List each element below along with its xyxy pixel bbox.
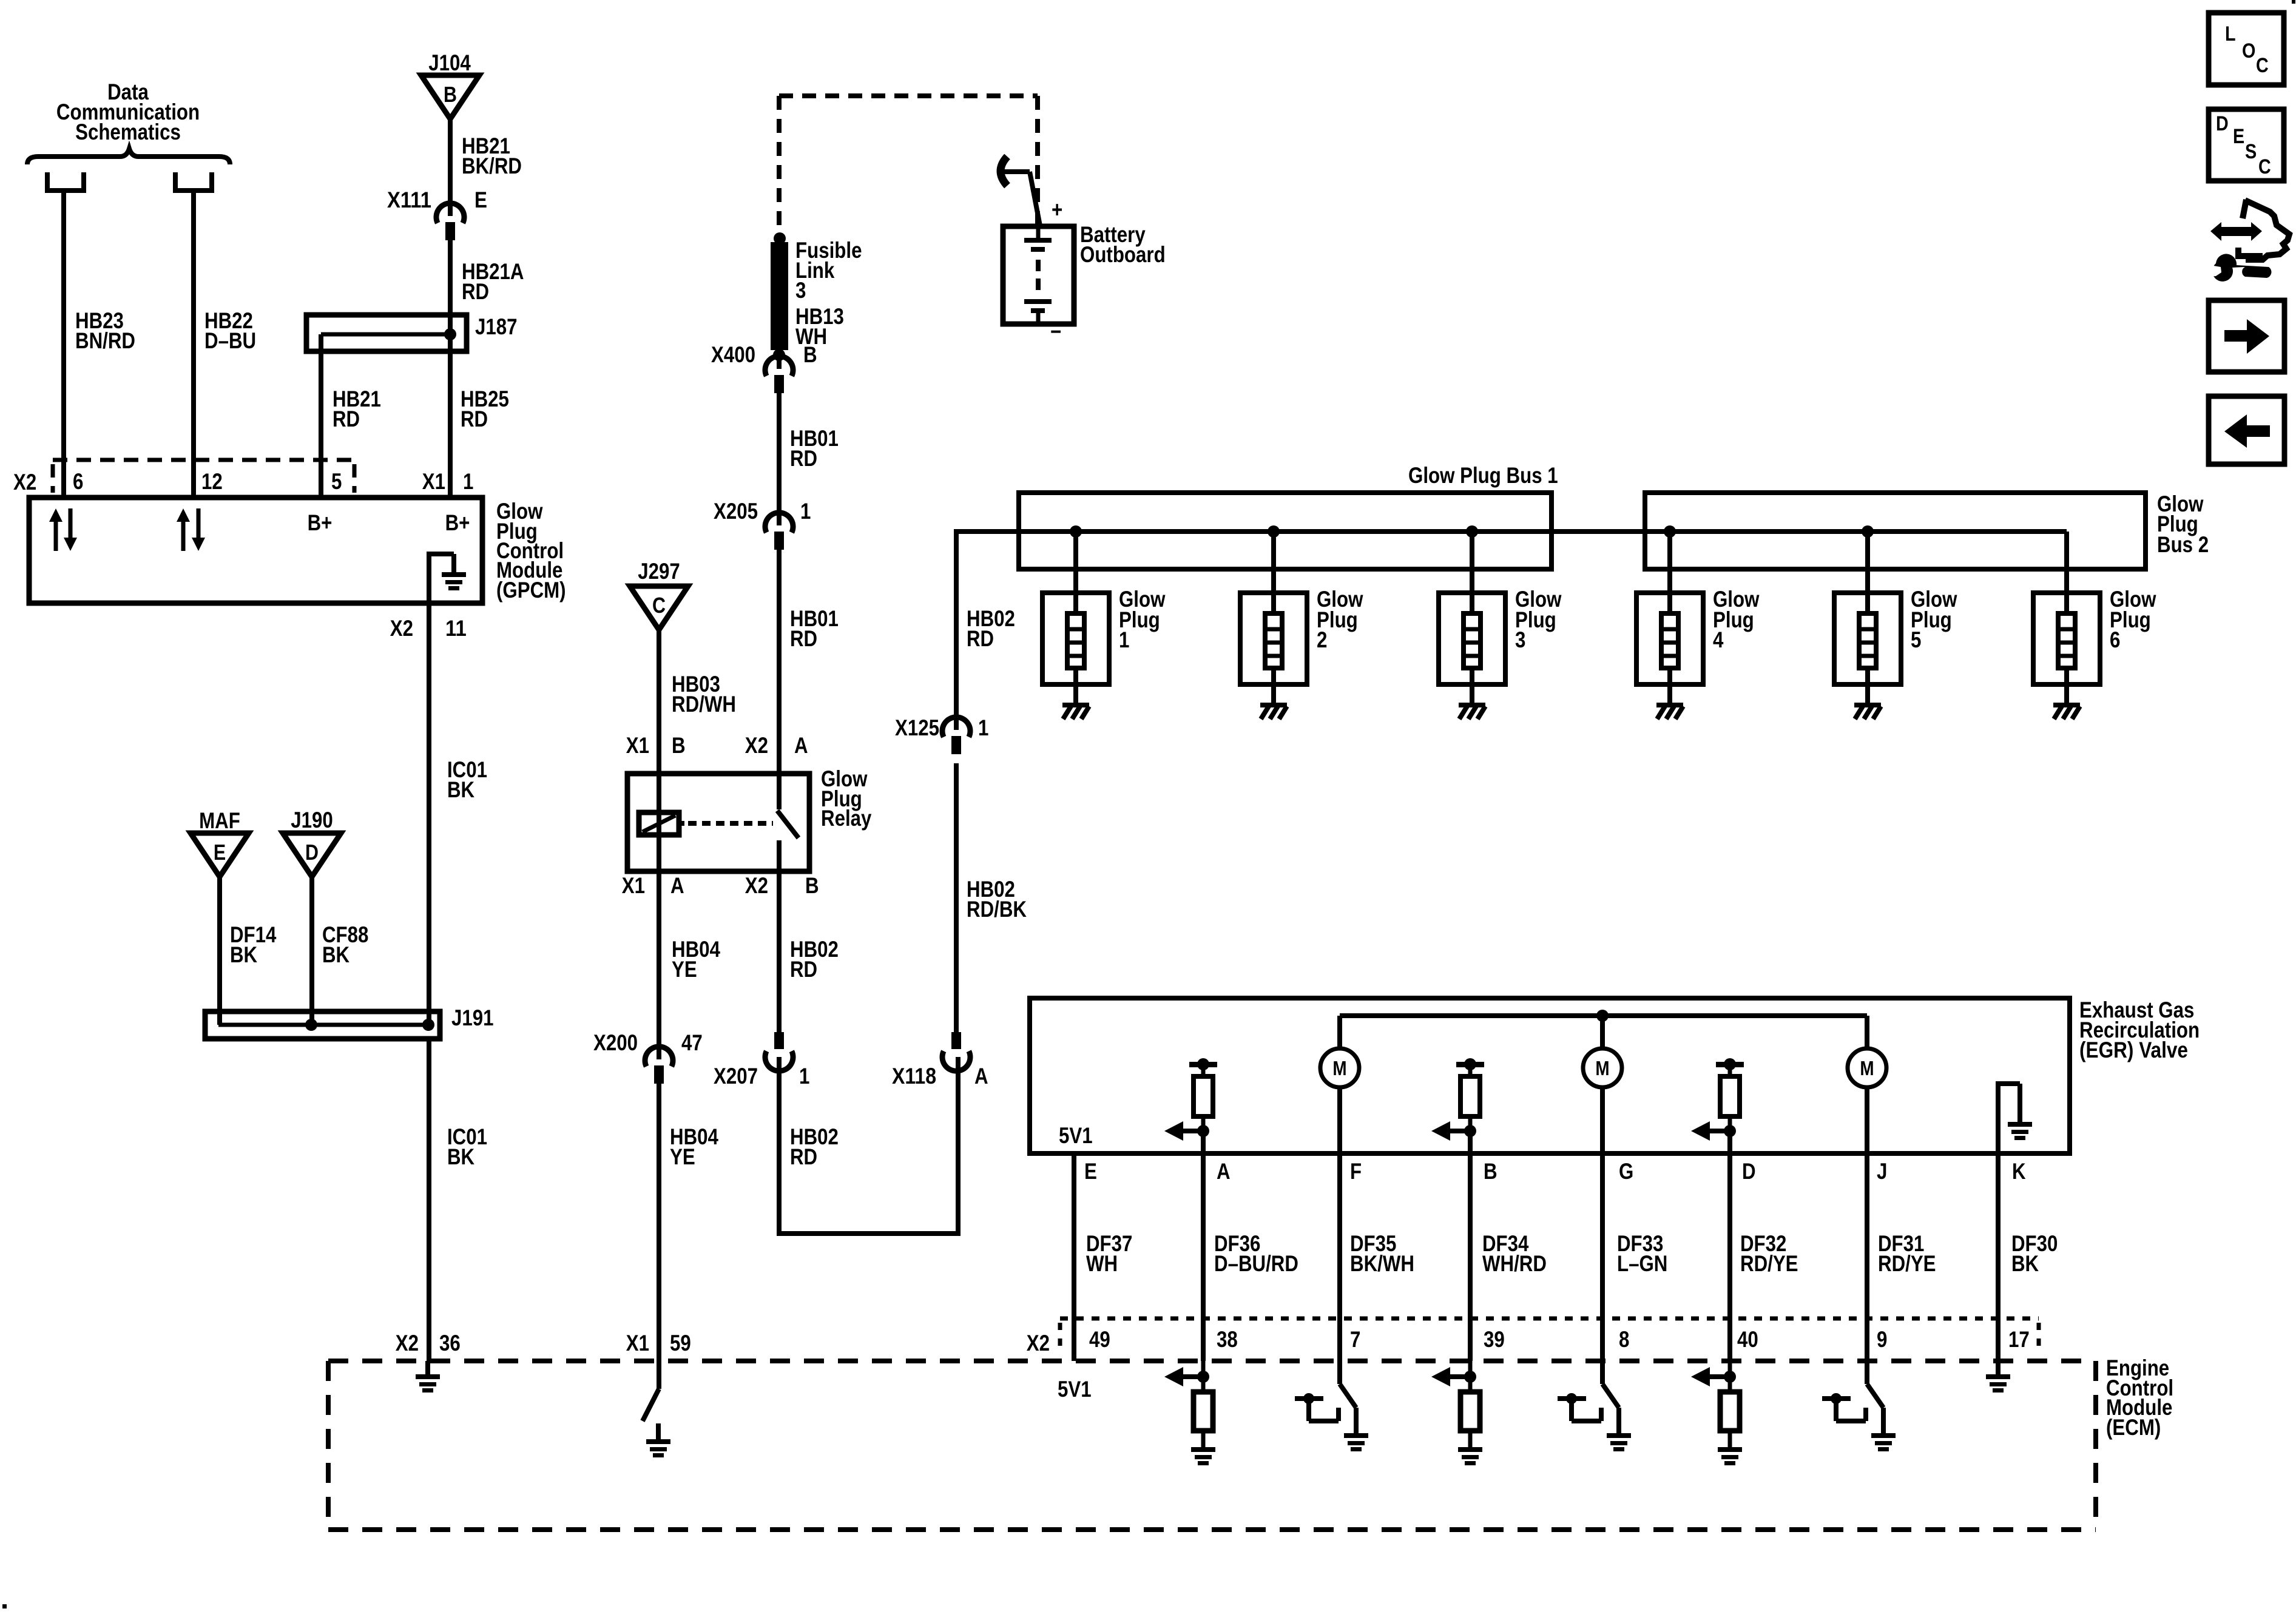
node label X1 pin 59 at ECM — [626, 1331, 691, 1355]
wire EGR 5V1 pin E — [1072, 1153, 1076, 1361]
node label B+ pin 5 — [308, 510, 333, 535]
node data arrows pair 2 — [177, 508, 205, 551]
ground ECM ground at x2423 — [1458, 1447, 1482, 1465]
svg-text:E: E — [1084, 1159, 1097, 1184]
svg-text:1: 1 — [799, 1064, 809, 1089]
svg-text:J297: J297 — [638, 559, 680, 584]
ground glow plug 4 chassis ground — [1656, 703, 1683, 719]
ground ECM pin 59 ground — [646, 1439, 670, 1457]
svg-text:B: B — [803, 342, 817, 367]
svg-text:38: 38 — [1217, 1327, 1238, 1352]
svg-text:2: 2 — [1317, 627, 1327, 652]
node GPCM pin 12 label — [201, 469, 223, 494]
svg-text:1: 1 — [1119, 627, 1129, 652]
wire relay coil branch — [657, 774, 661, 871]
node label X400 B — [711, 342, 817, 367]
resistor Glow Plug 5 heater — [1834, 532, 1901, 703]
ground glow plug 6 chassis ground — [2053, 703, 2080, 719]
wire IC01 BK from GPCM X2-11 to J191 — [427, 603, 431, 1025]
node label HB21A RD — [462, 259, 524, 304]
svg-text:M: M — [1860, 1057, 1874, 1079]
svg-text:RD/WH: RD/WH — [672, 692, 736, 717]
node label CF88 BK — [322, 922, 368, 967]
svg-text:D: D — [1742, 1159, 1756, 1184]
svg-text:40: 40 — [1737, 1327, 1758, 1352]
relay ECM glow plug enable switch blade — [643, 1389, 659, 1421]
ground ECM pin 36 ground — [416, 1361, 440, 1393]
svg-text:BK: BK — [322, 942, 349, 967]
node Data Communication Schematics heading — [56, 79, 200, 144]
svg-text:5: 5 — [1911, 627, 1921, 652]
wire IC01 BK from J191 to ECM — [427, 1039, 431, 1361]
svg-text:RD: RD — [790, 626, 817, 651]
wire ECM switch to ground — [656, 1423, 661, 1439]
node connector X207 — [765, 1032, 793, 1071]
node label Battery Outboard — [1080, 222, 1166, 267]
node page corner mark top right — [2292, 0, 2295, 4]
svg-text:X200: X200 — [593, 1030, 638, 1055]
wire EGR pin K to ECM — [1996, 1153, 2001, 1361]
svg-text:B: B — [444, 82, 457, 107]
relay Glow Plug Relay box — [627, 774, 809, 871]
svg-text:O: O — [2242, 39, 2255, 62]
svg-text:C: C — [2258, 155, 2271, 178]
node label Exhaust Gas Recirculation (EGR) Valve — [2079, 998, 2200, 1062]
svg-text:RD: RD — [790, 446, 817, 471]
transistor motor M3 — [1848, 1048, 1886, 1087]
svg-text:L: L — [2225, 22, 2236, 46]
node label DF36 D-BU/RD — [1214, 1231, 1298, 1276]
wire HB03 RD/WH — [657, 630, 661, 774]
svg-text:3: 3 — [795, 278, 806, 303]
resistor EGR position sensor A — [1164, 1058, 1217, 1141]
node label B+ pin 1 — [445, 510, 470, 535]
node label HB02 RD/BK — [967, 877, 1027, 922]
svg-text:X2: X2 — [745, 733, 768, 758]
svg-text:3: 3 — [1515, 627, 1525, 652]
node connector triangle J297 C — [630, 559, 688, 630]
svg-text:RD: RD — [461, 407, 488, 431]
node label Glow Plug Control Module (GPCM) — [496, 499, 566, 603]
node J187 splice box — [306, 315, 467, 351]
ground glow plug 2 chassis ground — [1260, 703, 1287, 719]
node connector fork HB23 — [45, 172, 86, 191]
node junction dot glow plug 2 — [1268, 525, 1280, 538]
svg-text:D: D — [2216, 112, 2229, 135]
svg-text:D–BU/RD: D–BU/RD — [1214, 1251, 1298, 1276]
wire J187 internal bus — [321, 315, 450, 351]
node label Glow Plug Bus 1 — [1408, 463, 1558, 488]
node label DF14 BK — [230, 922, 277, 967]
ground glow plug 5 chassis ground — [1854, 703, 1881, 719]
node GPCM X1 pin 1 labels — [422, 469, 474, 494]
svg-text:RD: RD — [790, 1144, 817, 1169]
wire HB25 RD from J187 to GPCM X1-1 — [448, 351, 453, 500]
node label DF33 L-GN — [1617, 1231, 1667, 1276]
node label Glow Plug 2 — [1317, 587, 1363, 652]
node page period mark bottom left — [2, 1604, 7, 1609]
node label battery plus — [1052, 197, 1062, 222]
svg-text:Bus 2: Bus 2 — [2157, 532, 2209, 557]
node label Fusible Link 3 HB13 WH — [795, 238, 862, 349]
node label HB21 BK/RD — [462, 133, 522, 178]
svg-text:BK/RD: BK/RD — [462, 154, 522, 178]
ground ECM driver ground at x3077 — [1871, 1433, 1896, 1451]
ground GPCM internal ground — [427, 554, 466, 603]
svg-text:B: B — [1484, 1159, 1497, 1184]
svg-text:D–BU: D–BU — [204, 328, 256, 353]
node label X205 pin 1 — [714, 499, 811, 524]
node icon LOC box — [2209, 13, 2284, 85]
svg-text:A: A — [794, 733, 808, 758]
svg-text:WH/RD: WH/RD — [1482, 1251, 1547, 1276]
svg-text:1: 1 — [978, 715, 988, 740]
node label DF35 BK/WH — [1350, 1231, 1414, 1276]
node junction dot IC01 at J191 — [422, 1019, 434, 1031]
svg-text:B: B — [672, 733, 686, 758]
svg-text:G: G — [1619, 1159, 1633, 1184]
node junction dot fusible link bottom — [773, 349, 785, 361]
node relay pin labels top — [626, 733, 808, 758]
wire CF88 BK from J190 to J191 — [309, 877, 314, 1025]
svg-text:49: 49 — [1089, 1327, 1110, 1352]
svg-text:RD: RD — [333, 407, 360, 431]
node connector triangle J104 B — [421, 50, 479, 119]
svg-text:47: 47 — [681, 1030, 703, 1055]
node label IC01 BK lower — [447, 1124, 487, 1169]
node label DF37 WH — [1086, 1231, 1132, 1276]
svg-text:X2: X2 — [745, 873, 768, 898]
node label Engine Control Module (ECM) — [2106, 1355, 2173, 1440]
svg-text:RD: RD — [967, 626, 994, 651]
wire motor M2 to pin G — [1600, 1087, 1605, 1361]
svg-text:E: E — [2233, 125, 2244, 148]
op-amp EGR Exhaust Gas Recirculation Valve box — [1030, 998, 2070, 1153]
svg-text:A: A — [670, 873, 684, 898]
svg-text:36: 36 — [439, 1331, 461, 1355]
node label DF34 WH/RD — [1482, 1231, 1547, 1276]
wire ECM pin 17 to ground — [1996, 1361, 2001, 1374]
node label HB03 RD/WH — [672, 672, 736, 717]
svg-text:9: 9 — [1877, 1327, 1887, 1352]
svg-text:(ECM): (ECM) — [2106, 1415, 2161, 1440]
svg-text:RD/YE: RD/YE — [1740, 1251, 1798, 1276]
node junction dot glow plug 1 — [1070, 525, 1082, 538]
node junction dot J190 at J191 — [305, 1019, 317, 1031]
svg-text:RD: RD — [462, 279, 489, 304]
svg-text:39: 39 — [1484, 1327, 1505, 1352]
relay switch blade — [777, 811, 799, 838]
svg-text:BK: BK — [2011, 1251, 2039, 1276]
node label HB25 RD — [461, 387, 509, 431]
svg-text:7: 7 — [1350, 1327, 1360, 1352]
resistor EGR position sensor B — [1431, 1058, 1484, 1141]
node label HB01 RD upper — [790, 426, 839, 471]
svg-text:D: D — [305, 840, 319, 865]
node label X125 pin 1 — [895, 715, 988, 740]
node label HB21 RD — [333, 387, 381, 431]
svg-text:WH: WH — [1086, 1251, 1118, 1276]
node GPCM pin 6 label — [73, 469, 83, 494]
svg-text:Relay: Relay — [821, 806, 872, 831]
fuse Fusible Link 3 HB13 WH — [771, 242, 788, 350]
relay ECM driver switch at x2208 — [1340, 1361, 1356, 1435]
node icon vehicle wrench — [2209, 200, 2289, 282]
node label Glow Plug 1 — [1119, 587, 1166, 652]
svg-text:X205: X205 — [714, 499, 758, 524]
node ECM driver clamp at x2208 — [1295, 1393, 1339, 1421]
battery Battery Outboard box — [1003, 226, 1074, 324]
wire relay switch output — [777, 840, 782, 871]
node label X118 pin A — [892, 1064, 988, 1089]
wire EGR motor supply bus — [1340, 1016, 1867, 1048]
svg-text:X2: X2 — [390, 616, 413, 641]
svg-text:J191: J191 — [451, 1005, 494, 1030]
svg-text:S: S — [2245, 140, 2257, 163]
wire DF14 BK from MAF to J191 — [217, 877, 222, 1025]
node label Glow Plug 6 — [2110, 587, 2156, 652]
node label Glow Plug 5 — [1911, 587, 1957, 652]
svg-text:Outboard: Outboard — [1080, 242, 1166, 267]
wire HB21 RD from J187 to GPCM pin 5 — [319, 334, 323, 500]
node connector X125 — [942, 717, 970, 754]
ground EGR internal ground — [1996, 1084, 2032, 1153]
node label J191 — [451, 1005, 494, 1030]
node icon previous page arrow box — [2209, 396, 2284, 464]
wire relay dashed actuator link — [679, 821, 773, 826]
node connector X205 — [765, 513, 793, 550]
node label IC01 BK upper — [447, 757, 487, 802]
wire motor M3 to pin J — [1865, 1087, 1869, 1361]
svg-text:B: B — [805, 873, 819, 898]
node ECM driver clamp at x2641 — [1558, 1393, 1601, 1421]
wire HB01 RD lower — [777, 550, 782, 809]
svg-text:MAF: MAF — [199, 808, 240, 833]
op-amp GPCM Glow Plug Control Module box — [29, 498, 482, 603]
wire relay switch input — [777, 550, 782, 809]
wire HB21 BK/RD — [448, 118, 453, 216]
node label 5V1 inside EGR — [1059, 1123, 1093, 1148]
node label HB04 YE lower — [670, 1124, 718, 1169]
node EGR pin letters — [1084, 1159, 2026, 1184]
resistor Glow Plug 3 heater — [1439, 532, 1505, 703]
node connector fork HB22 — [173, 172, 214, 191]
svg-text:5V1: 5V1 — [1059, 1123, 1093, 1148]
transistor motor M1 — [1320, 1048, 1359, 1087]
svg-text:A: A — [1217, 1159, 1231, 1184]
node ECM driver clamp at x3077 — [1822, 1393, 1866, 1421]
svg-text:Glow Plug Bus 1: Glow Plug Bus 1 — [1408, 463, 1558, 488]
node junction dot HB21A at J187 — [444, 328, 456, 340]
svg-text:+: + — [1052, 197, 1062, 222]
wire HB04 YE upper — [657, 871, 661, 1059]
node label HB02 RD upper — [790, 937, 839, 982]
resistor Glow Plug 1 heater — [1042, 532, 1109, 703]
node Glow Plug Bus 1 box — [1019, 493, 1551, 569]
svg-text:X111: X111 — [387, 187, 431, 212]
svg-text:8: 8 — [1619, 1327, 1629, 1352]
svg-text:RD/BK: RD/BK — [967, 897, 1027, 922]
svg-text:J187: J187 — [475, 314, 518, 339]
node junction dot glow plug 5 — [1862, 525, 1874, 538]
node label X2 pin 11 below GPCM — [390, 616, 467, 641]
svg-text:RD: RD — [790, 957, 817, 982]
svg-text:1: 1 — [463, 469, 473, 494]
svg-text:E: E — [214, 840, 226, 865]
node label 5V1 inside ECM — [1058, 1377, 1092, 1402]
node icon DESC box — [2209, 109, 2284, 181]
svg-text:X2: X2 — [396, 1331, 419, 1355]
svg-text:X2: X2 — [1027, 1331, 1050, 1355]
svg-text:X118: X118 — [892, 1064, 936, 1089]
node label HB23 BN/RD — [75, 308, 135, 353]
node label Glow Plug Relay — [821, 766, 872, 831]
resistor Glow Plug 4 heater — [1636, 532, 1703, 703]
svg-text:X1: X1 — [422, 469, 445, 494]
node connector X400 — [765, 356, 793, 393]
svg-text:BK: BK — [447, 777, 474, 802]
svg-text:1: 1 — [800, 499, 811, 524]
node label HB22 D-BU — [204, 308, 256, 353]
transistor motor M2 — [1583, 1048, 1622, 1087]
svg-text:11: 11 — [445, 616, 467, 641]
ground ECM pin 17 ground — [1986, 1374, 2010, 1393]
svg-text:Schematics: Schematics — [75, 120, 181, 144]
resistor ECM pull-up at x1983 — [1164, 1361, 1213, 1447]
svg-text:BK/WH: BK/WH — [1350, 1251, 1414, 1276]
node label X2 pin 36 at ECM — [396, 1331, 461, 1355]
node label HB02 RD at bus — [967, 606, 1015, 651]
ground ECM driver ground at x2208 — [1344, 1433, 1368, 1451]
node icon next page arrow box — [2209, 300, 2284, 372]
resistor ECM pull-up at x2851 — [1691, 1361, 1740, 1447]
resistor Glow Plug 2 heater — [1240, 532, 1307, 703]
node connector X200 — [645, 1047, 673, 1084]
svg-text:M: M — [1595, 1057, 1609, 1079]
wire dashed battery positive feed — [779, 96, 1038, 234]
wire HB21A RD — [448, 240, 453, 317]
svg-text:J: J — [1877, 1159, 1887, 1184]
node label Glow Plug Bus 2 — [2157, 491, 2209, 557]
resistor ECM pull-up at x2423 — [1431, 1361, 1480, 1447]
node J191 splice box — [205, 1011, 440, 1039]
svg-text:5: 5 — [331, 469, 342, 494]
node Glow Plug Bus 2 box — [1645, 493, 2146, 569]
node junction dot glow plug 4 — [1664, 525, 1676, 538]
ground ECM ground at x2851 — [1718, 1447, 1742, 1465]
node junction dot fusible link top — [774, 232, 786, 245]
svg-text:X400: X400 — [711, 342, 755, 367]
node label DF30 BK — [2011, 1231, 2058, 1276]
node ECM pin numbers — [1089, 1327, 2030, 1352]
node label HB04 YE upper — [672, 937, 720, 982]
wire EGR sensor B to ECM — [1468, 1131, 1473, 1361]
node label Glow Plug 4 — [1713, 587, 1760, 652]
node label DF32 RD/YE — [1740, 1231, 1798, 1276]
node connector X118 — [942, 1032, 970, 1071]
svg-text:X2: X2 — [13, 470, 36, 495]
svg-text:X125: X125 — [895, 715, 939, 740]
wire glow plug bus — [1019, 529, 2067, 534]
svg-text:B+: B+ — [308, 510, 333, 535]
node label J187 — [475, 314, 518, 339]
node connector triangle J190 D — [283, 808, 341, 877]
resistor Glow Plug 6 heater — [2033, 532, 2100, 703]
node connector X111 — [436, 203, 464, 240]
svg-text:X1: X1 — [626, 733, 649, 758]
svg-text:X1: X1 — [626, 1331, 649, 1355]
node junction dot glow plug 3 — [1466, 525, 1478, 538]
svg-text:5V1: 5V1 — [1058, 1377, 1092, 1402]
relay ECM driver switch at x3077 — [1867, 1361, 1883, 1435]
op-amp ECM Engine Control Module dashed box — [328, 1361, 2096, 1530]
node label HB01 RD lower — [790, 606, 839, 651]
ground ECM ground at x1983 — [1191, 1447, 1215, 1465]
wire curly brace under heading — [27, 149, 230, 164]
svg-text:17: 17 — [2008, 1327, 2030, 1352]
node battery clamp — [1001, 157, 1040, 226]
svg-text:J104: J104 — [428, 50, 471, 75]
wire HB02 RD to bus — [956, 529, 1019, 730]
svg-text:X1: X1 — [622, 873, 645, 898]
wire HB01 RD upper — [777, 393, 782, 525]
resistor EGR position sensor D — [1691, 1058, 1744, 1141]
svg-text:6: 6 — [2110, 627, 2120, 652]
node ECM X2 connector dotted bracket — [1027, 1318, 2039, 1355]
wire HB23 BN/RD vertical — [61, 191, 66, 500]
svg-text:4: 4 — [1713, 627, 1724, 652]
svg-text:B+: B+ — [445, 510, 470, 535]
svg-text:12: 12 — [201, 469, 223, 494]
wire EGR sensor D to ECM — [1727, 1131, 1732, 1361]
relay coil — [639, 812, 679, 835]
svg-text:(GPCM): (GPCM) — [496, 578, 566, 603]
svg-text:BN/RD: BN/RD — [75, 328, 135, 353]
wire J191 internal bus — [218, 1023, 428, 1027]
battery internal cells — [1024, 226, 1052, 324]
node connector triangle MAF E — [191, 808, 249, 877]
svg-text:BK: BK — [230, 942, 257, 967]
svg-text:YE: YE — [670, 1144, 695, 1169]
relay ECM driver switch at x2641 — [1602, 1361, 1619, 1435]
svg-text:(EGR) Valve: (EGR) Valve — [2079, 1038, 2188, 1062]
wire HB02 RD/BK — [954, 763, 959, 1033]
svg-text:−: − — [1050, 319, 1061, 344]
svg-text:L–GN: L–GN — [1617, 1251, 1667, 1276]
node label HB02 RD lower — [790, 1124, 839, 1169]
wire EGR motor 2 stub — [1600, 1016, 1605, 1048]
wire HB22 D-BU vertical — [191, 191, 196, 500]
svg-text:6: 6 — [73, 469, 83, 494]
svg-text:A: A — [974, 1064, 988, 1089]
node label Glow Plug 3 — [1515, 587, 1562, 652]
node junction dot EGR motor bus — [1596, 1010, 1609, 1022]
svg-text:X207: X207 — [714, 1064, 758, 1089]
ground glow plug 1 chassis ground — [1062, 703, 1089, 719]
node label DF31 RD/YE — [1878, 1231, 1936, 1276]
svg-text:E: E — [474, 187, 487, 212]
node label X200 pin 47 — [593, 1030, 703, 1055]
svg-text:RD/YE: RD/YE — [1878, 1251, 1936, 1276]
svg-text:K: K — [2012, 1159, 2026, 1184]
svg-text:F: F — [1350, 1159, 1362, 1184]
svg-text:C: C — [652, 593, 666, 618]
node GPCM pin 5 label — [331, 469, 342, 494]
svg-text:C: C — [2256, 54, 2269, 77]
svg-text:M: M — [1332, 1057, 1346, 1079]
svg-text:59: 59 — [670, 1331, 691, 1355]
wire HB02 RD upper — [777, 840, 782, 1033]
